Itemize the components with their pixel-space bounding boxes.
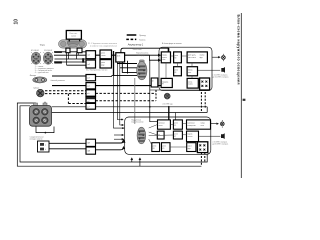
svg-text:Блок-схема наружного освещения: Блок-схема наружного освещения (237, 15, 241, 85)
gray vertical from blob down (134, 78, 136, 124)
svg-text:ш3: ш3 (87, 78, 89, 80)
svg-text:X1.1 Звуковые сигналы высокого: X1.1 Звуковые сигналы высокого (88, 43, 117, 45)
horn connector stub 2 (77, 48, 82, 53)
svg-text:света: света (101, 55, 105, 57)
wire band y90 (150, 89, 207, 91)
svg-text:реле: реле (153, 145, 157, 147)
headlamp left (31, 52, 41, 64)
side lamp oval (33, 77, 47, 83)
wire loop inner (Q1 edge to bottom return) (20, 106, 207, 162)
bb box b9 (187, 143, 196, 152)
svg-text:реле: реле (162, 145, 166, 147)
ground rosette (164, 93, 170, 99)
svg-text:предо-: предо- (162, 54, 167, 56)
svg-text:Сигнал: Сигнал (33, 88, 39, 90)
bold tick row1 (54, 51, 62, 53)
connector strip box r6b (86, 103, 96, 109)
svg-text:реле даль-: реле даль- (188, 54, 197, 56)
svg-text:фар: фар (101, 64, 104, 67)
svg-text:К7: К7 (174, 136, 176, 138)
svg-text:освещения: освещения (187, 125, 195, 127)
montage block (159, 47, 212, 90)
bold stem into b1 (168, 107, 170, 120)
svg-text:звуков.: звуков. (187, 134, 193, 136)
svg-text:предохр.: предохр. (162, 81, 169, 83)
svg-text:очист.: очист. (188, 145, 193, 147)
bb wide box b3 (187, 120, 211, 129)
bb box b1 (158, 120, 171, 129)
U wire under Q1 (36, 127, 54, 133)
relay box B1 (66, 31, 81, 40)
dashed drops below g2 (200, 153, 202, 167)
svg-text:с 01.1998 г. выпуска: с 01.1998 г. выпуска (213, 74, 228, 76)
connector box X1 (151, 78, 158, 87)
lamp symbol (222, 54, 226, 61)
svg-text:сигнал: сигнал (187, 136, 192, 138)
svg-text:ш4: ш4 (87, 86, 89, 88)
bb box b5 (173, 131, 182, 139)
svg-text:до 01.1998 г. выпуска: до 01.1998 г. выпуска (213, 77, 229, 79)
svg-text:с 10.1998 года: с 10.1998 года (162, 103, 173, 105)
svg-text:Фары: Фары (40, 44, 46, 47)
wire row y59 (55, 58, 87, 60)
svg-text:К8: К8 (153, 148, 155, 150)
bus2 horizontal (52, 112, 207, 114)
wire to horn symbol (198, 69, 221, 71)
svg-text:БЛ-140-01: БЛ-140-01 (31, 50, 39, 52)
horn symbol bottom (221, 133, 225, 139)
tick down into fuse F1 (168, 48, 170, 53)
bb box b8 (162, 143, 171, 152)
companion box r1 (100, 50, 112, 59)
svg-text:колодка жгутов: колодка жгутов (30, 139, 43, 141)
svg-text:Кабель: Кабель (139, 39, 145, 41)
svg-text:ш7: ш7 (87, 107, 89, 109)
connector box row1 bottom (86, 139, 96, 146)
risers from loops into bottom block (131, 158, 133, 162)
svg-text:К5: К5 (174, 125, 176, 127)
svg-text:боковой указатель: боковой указатель (51, 79, 66, 82)
wire loop outer (Q1 tab to bottom return) (17, 103, 201, 166)
bottom block (125, 117, 211, 154)
connector box row2 bottom (86, 147, 96, 154)
svg-text:К3: К3 (175, 57, 177, 59)
box row3 b (187, 78, 198, 88)
connector strip box r5 (86, 90, 96, 96)
interior wires montage block (166, 56, 192, 78)
drop from dash bus into b1 (150, 60, 162, 122)
svg-text:4 — дальний свет: 4 — дальний свет (35, 71, 49, 74)
svg-text:свет: свет (188, 72, 191, 74)
lamp symbol bottom (220, 120, 224, 127)
svg-text:К4: К4 (175, 72, 177, 74)
bb box b7 (152, 143, 160, 152)
bottom switch blob (137, 127, 146, 144)
connector strip box r3 (86, 75, 96, 81)
svg-text:включат.: включат. (159, 122, 166, 124)
wire side lamp row (52, 75, 86, 77)
headlamp right (43, 52, 53, 64)
connector ticks before strip (82, 58, 84, 63)
lamp bus pair row2 (54, 61, 86, 63)
washer pump block Q1 (30, 103, 52, 126)
svg-text:В блоке-фаре и панели: В блоке-фаре и панели (162, 42, 182, 45)
margin glyph (243, 99, 246, 101)
relay row2 a (174, 67, 182, 76)
bb box b2 (173, 120, 182, 129)
bb box b4 (157, 131, 164, 139)
svg-text:до 03.1998 г. выпуска: до 03.1998 г. выпуска (212, 144, 228, 146)
svg-text:ближн.: ближн. (188, 70, 194, 72)
vertical a down to bottom block (114, 75, 125, 128)
thin stem into b2 (175, 113, 177, 120)
connector strip box r2 (86, 60, 96, 68)
interior wires bottom block (149, 124, 187, 147)
svg-text:тель: тель (162, 59, 165, 61)
svg-text:Ш9: Ш9 (88, 143, 91, 145)
svg-text:лампа: лампа (188, 84, 193, 86)
svg-text:БЛ-140-02: БЛ-140-02 (44, 50, 52, 52)
wire legend box to connector row2 (49, 148, 86, 150)
dashed bus upper (96, 92, 157, 94)
relay row2 b (187, 67, 197, 76)
svg-text:света: света (159, 125, 163, 127)
svg-text:БСК: БСК (117, 55, 120, 57)
svg-text:К9: К9 (162, 148, 164, 150)
svg-text:реле: реле (175, 55, 179, 57)
svg-text:и низкого тона соединительные: и низкого тона соединительные (90, 46, 117, 48)
socket box g1 (200, 78, 210, 90)
svg-text:реле: реле (174, 122, 178, 124)
svg-text:выключат.: выключат. (187, 122, 195, 124)
vertical b down to bottom block (117, 62, 123, 120)
legend box (38, 141, 50, 152)
svg-text:Фонарь: Фонарь (30, 74, 36, 77)
legend dashed wire sample (126, 38, 136, 40)
svg-text:габар.: габар. (201, 122, 206, 124)
svg-text:ш1: ш1 (88, 55, 90, 57)
wire r4 row (52, 85, 161, 87)
fuse box F2 (174, 52, 182, 63)
wires from connector boxes to bottom block (96, 140, 124, 143)
svg-text:Провод: Провод (139, 35, 146, 37)
svg-text:б: б (45, 149, 46, 151)
fuse row3 a (161, 78, 172, 87)
connector strip box r1 (86, 51, 96, 59)
bold tick row2 (54, 61, 62, 63)
stub pin drops (67, 53, 79, 65)
horn connector stub 1 (66, 48, 70, 53)
right margin rule (240, 13, 242, 178)
svg-text:храни-: храни- (162, 57, 167, 59)
svg-text:а: а (45, 145, 46, 147)
connector strip box r4 (86, 83, 96, 89)
manhattan wires to ignition blob (112, 62, 138, 75)
arrow to lamp symbol bottom (211, 123, 219, 125)
wire r3 tail (96, 75, 113, 77)
svg-text:реле: реле (174, 134, 178, 136)
svg-text:с 03.1998 г. выпуска: с 03.1998 г. выпуска (212, 141, 227, 143)
dashed corner vertical (155, 90, 157, 101)
svg-text:ш2: ш2 (88, 64, 90, 66)
svg-text:переключатели: переключатели (131, 122, 143, 124)
riser into fuse box (149, 55, 160, 60)
svg-text:лампы: лампы (200, 54, 206, 56)
horn assembly (59, 39, 87, 48)
svg-text:контр.: контр. (188, 81, 193, 83)
dashed drop wires from socket box g1 (200, 89, 202, 112)
dashed wire from horn lower with step (68, 94, 86, 104)
ignition switch blob (137, 60, 147, 80)
vertical c down to bottom block (120, 62, 124, 125)
companion box r2 (100, 60, 112, 68)
wire Q1 right tab up (44, 102, 46, 103)
svg-text:Ш8: Ш8 (88, 150, 91, 152)
spine vertical bold (113, 51, 115, 75)
bb box b6 (187, 131, 199, 142)
top bus pair row1 (54, 51, 86, 53)
horn symbol small (221, 67, 225, 73)
svg-text:ш5: ш5 (87, 93, 89, 95)
horn C1 (37, 89, 45, 97)
arrow to lamp symbol (212, 56, 220, 58)
bus1 horizontal (52, 106, 207, 108)
svg-text:10: 10 (14, 19, 20, 25)
bus into montage block (121, 48, 169, 53)
svg-text:света фар: света фар (137, 54, 145, 57)
bus right end join (206, 107, 208, 113)
svg-text:Замок зажиг.: Замок зажиг. (132, 49, 142, 51)
svg-text:ш6: ш6 (87, 101, 89, 103)
legend solid wire sample (127, 34, 137, 36)
wire legend box to connector row1 (49, 142, 86, 144)
svg-text:реле: реле (175, 70, 179, 72)
socket box g2 (197, 142, 207, 153)
svg-text:Аккумулятор 1: Аккумулятор 1 (128, 43, 144, 46)
svg-text:него света: него света (188, 57, 196, 59)
entry stubs into bottom block (114, 134, 124, 136)
third box row (116, 53, 125, 62)
connector strip box r6 with dark band (86, 97, 96, 103)
dashed wire from horn upper (45, 90, 86, 92)
dashed bus lower (96, 100, 157, 102)
svg-text:огни: огни (201, 125, 204, 127)
wire to horn symbol bottom (199, 135, 221, 137)
svg-text:F7: F7 (162, 84, 164, 86)
fuse box F1 (161, 52, 170, 63)
svg-text:налов: налов (71, 36, 76, 38)
svg-text:X1.2 Повторители и сигнал: X1.2 Повторители и сигнал (86, 70, 107, 72)
relay box K1 wide (187, 52, 207, 63)
